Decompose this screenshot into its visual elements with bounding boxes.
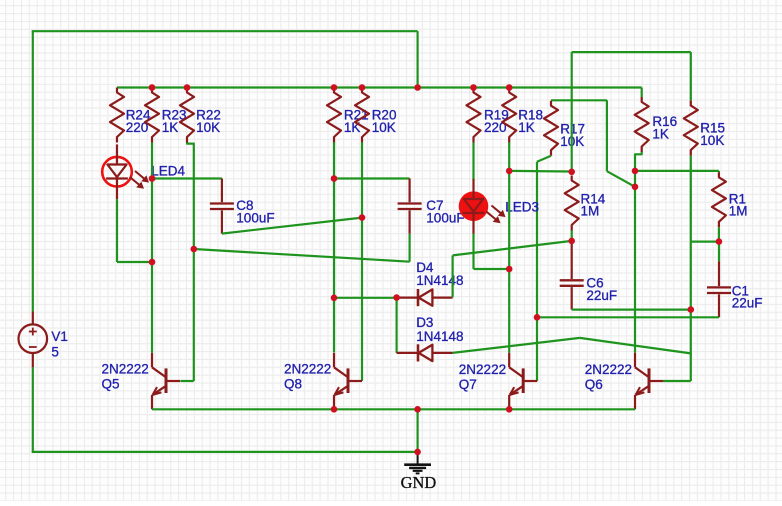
label GND xyxy=(401,473,437,492)
wire D3 anode lambda diagonal xyxy=(453,338,691,354)
label Q5 xyxy=(102,362,149,392)
transistor Q6 2N2222 xyxy=(635,353,663,410)
svg-text:1K: 1K xyxy=(518,120,535,135)
svg-text:2N2222: 2N2222 xyxy=(284,362,331,377)
label C7 100uF xyxy=(426,198,464,225)
node R22 top xyxy=(184,84,191,91)
label R17 10K xyxy=(560,122,585,149)
capacitor C6 xyxy=(560,241,584,310)
wire R15 bottom long xyxy=(690,156,692,381)
label C8 100uF xyxy=(236,198,274,225)
svg-text:1K: 1K xyxy=(652,127,669,142)
ground GND xyxy=(404,452,431,474)
svg-text:1K: 1K xyxy=(344,120,361,135)
label R15 10K xyxy=(700,120,725,147)
wire R16 bottom jog xyxy=(635,152,642,353)
svg-text:1K: 1K xyxy=(162,120,179,135)
label R24 220 xyxy=(126,108,151,135)
svg-text:100uF: 100uF xyxy=(426,211,464,226)
svg-text:10K: 10K xyxy=(196,120,220,135)
svg-text:2N2222: 2N2222 xyxy=(585,362,632,377)
transistor Q8 2N2222 xyxy=(334,353,362,410)
node LED3-R18 junction xyxy=(506,266,513,273)
label R1 1M xyxy=(729,191,748,218)
voltage source V1 xyxy=(19,312,48,368)
wire R14 bottom xyxy=(571,231,573,241)
label R14 1M xyxy=(581,191,606,218)
wire diagonal to C7 xyxy=(194,249,410,262)
resistor R17 xyxy=(544,101,558,156)
node C8-R20 junction xyxy=(359,214,366,221)
svg-text:1M: 1M xyxy=(581,204,600,219)
svg-text:2N2222: 2N2222 xyxy=(102,362,149,377)
svg-text:Q7: Q7 xyxy=(459,377,477,392)
svg-text:100uF: 100uF xyxy=(236,210,274,225)
svg-text:1M: 1M xyxy=(729,204,748,219)
wire R14-R15 top link xyxy=(572,52,691,172)
wire R15 to R1 bottom xyxy=(691,241,719,243)
wire R21 line xyxy=(333,142,335,352)
node R23-C8 junction xyxy=(149,175,156,182)
node V+ junction at x=417.6 xyxy=(414,84,421,91)
node Q5 base diagonal junction xyxy=(191,246,198,253)
resistor R1 xyxy=(712,172,726,227)
resistor R15 xyxy=(684,101,698,156)
svg-text:Q6: Q6 xyxy=(585,377,603,392)
label R18 1K xyxy=(518,108,543,135)
wire R19 to LED3 xyxy=(472,142,474,179)
wire D4 anode up-diagonal xyxy=(453,241,572,297)
capacitor C8 xyxy=(210,179,234,234)
label R22 10K xyxy=(196,108,221,135)
wire C7 top xyxy=(334,177,410,179)
svg-text:1N4148: 1N4148 xyxy=(416,273,463,288)
node R23 top xyxy=(149,84,156,91)
label LED3 xyxy=(505,199,539,214)
wire R16 top stub xyxy=(641,88,643,98)
diode D3 1N4148 xyxy=(397,344,453,361)
led LED4 xyxy=(102,144,149,199)
svg-text:22uF: 22uF xyxy=(732,296,763,311)
node R19 top xyxy=(470,84,477,91)
resistor R14 xyxy=(565,176,579,231)
label LED4 xyxy=(151,164,185,179)
node Q8 emitter xyxy=(331,406,338,413)
wire C7 bottom xyxy=(409,234,411,262)
svg-text:LED3: LED3 xyxy=(505,199,539,214)
node R21-C7 junction xyxy=(331,175,338,182)
node GND top junction xyxy=(414,406,421,413)
node LED4-R23 junction xyxy=(149,259,156,266)
svg-text:5: 5 xyxy=(51,345,59,360)
svg-text:2N2222: 2N2222 xyxy=(459,362,506,377)
svg-text:Q8: Q8 xyxy=(284,376,302,391)
wire R23 line xyxy=(151,142,153,352)
wire R17 top to jog xyxy=(551,100,635,187)
svg-text:1N4148: 1N4148 xyxy=(416,329,463,344)
wire LED4 bottom xyxy=(117,199,152,262)
node R20 top xyxy=(359,84,366,91)
label D4 1N4148 xyxy=(416,260,463,288)
capacitor C7 xyxy=(398,179,422,234)
wire C6 bottom xyxy=(572,309,691,311)
svg-text:10K: 10K xyxy=(372,120,396,135)
wire main V+ bus xyxy=(117,86,642,88)
wire R18 line xyxy=(508,142,510,352)
wire D4-D3 link xyxy=(396,298,398,353)
label D3 1N4148 xyxy=(416,315,463,344)
wire R1 bottom xyxy=(718,227,720,241)
node C6-R15 junction xyxy=(688,306,695,313)
label C6 22uF xyxy=(586,276,617,303)
label Q8 xyxy=(284,362,331,392)
node R21 top xyxy=(331,84,338,91)
node R14 top xyxy=(568,169,575,176)
wire R20 line xyxy=(361,142,363,381)
svg-text:Q5: Q5 xyxy=(102,376,120,391)
wire net bus R18-R14 xyxy=(509,170,572,173)
resistor R21 xyxy=(327,88,341,143)
svg-text:22uF: 22uF xyxy=(586,288,617,303)
wire R17 bottom jog xyxy=(537,156,551,381)
transistor Q7 2N2222 xyxy=(509,353,537,410)
diode D4 1N4148 xyxy=(397,289,453,306)
wire R22 jog down xyxy=(187,142,194,381)
label R20 10K xyxy=(372,108,397,135)
node R18 top xyxy=(506,84,513,91)
label Q6 xyxy=(585,362,632,392)
wire LED3 bottom xyxy=(474,234,510,270)
node R16-collector bus junction xyxy=(632,168,639,175)
wire Q5 base link xyxy=(180,380,194,382)
label R21 1K xyxy=(344,108,369,135)
node R18 bus-E junction xyxy=(506,168,513,175)
wire Q6 base link xyxy=(663,380,691,382)
resistor R23 xyxy=(145,88,159,143)
node R21-D4 left junction xyxy=(331,295,338,302)
svg-text:10K: 10K xyxy=(700,133,724,148)
svg-text:LED4: LED4 xyxy=(151,164,185,179)
resistor R20 xyxy=(355,88,369,143)
node GND junction xyxy=(414,449,421,456)
resistor R19 xyxy=(467,88,481,143)
resistor R18 xyxy=(502,88,516,143)
svg-text:GND: GND xyxy=(401,473,437,492)
led LED3 xyxy=(459,179,506,234)
wire C1 bottom feedback xyxy=(537,316,719,318)
node Q7 emitter xyxy=(506,406,513,413)
resistor R24 xyxy=(110,88,124,143)
label Q7 xyxy=(459,362,506,392)
label C1 22uF xyxy=(732,283,763,310)
label R19 220 xyxy=(484,108,509,135)
node D4 cathode junction xyxy=(393,294,400,301)
wire net bus R16-R1 xyxy=(635,171,719,172)
label V1 5 xyxy=(51,329,68,360)
resistor R22 xyxy=(180,88,194,143)
wire emitter bus xyxy=(152,408,635,410)
resistor R16 xyxy=(635,97,649,152)
node R1 bottom xyxy=(716,238,723,245)
node R17 diagonal junction xyxy=(632,184,639,191)
svg-text:V1: V1 xyxy=(51,329,68,344)
label R23 1K xyxy=(162,108,187,135)
node R14 bottom xyxy=(568,238,575,245)
wire C8 diagonal xyxy=(222,218,362,234)
wire gnd stub xyxy=(417,409,419,452)
capacitor C1 xyxy=(707,242,731,318)
label R16 1K xyxy=(652,114,677,141)
wire C8 top xyxy=(152,177,222,179)
wire V1 bottom xyxy=(32,367,418,452)
wire R21 to D4 xyxy=(334,297,397,299)
transistor Q5 2N2222 xyxy=(152,353,180,410)
node C1-R17 junction xyxy=(534,314,541,321)
wire V+ top loop xyxy=(32,31,418,311)
